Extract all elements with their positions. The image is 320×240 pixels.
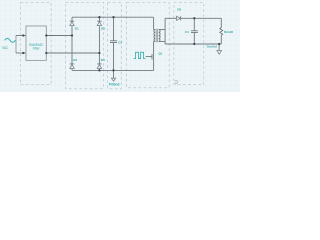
svg-text:C4: C4 <box>185 30 189 34</box>
svg-text:VAC: VAC <box>2 46 9 50</box>
svg-text:D3: D3 <box>101 27 105 31</box>
svg-text:D5: D5 <box>177 8 181 12</box>
svg-text:SecGnd: SecGnd <box>207 45 218 49</box>
svg-text:PriGnd: PriGnd <box>109 83 120 87</box>
svg-text:D4: D4 <box>101 58 105 62</box>
svg-text:RLOAD: RLOAD <box>224 30 233 34</box>
svg-text:D2: D2 <box>73 58 77 62</box>
svg-text:D1: D1 <box>75 27 79 31</box>
svg-text:C3: C3 <box>118 40 122 44</box>
svg-text:Q1: Q1 <box>158 51 162 55</box>
svg-text:Filter: Filter <box>33 47 41 51</box>
